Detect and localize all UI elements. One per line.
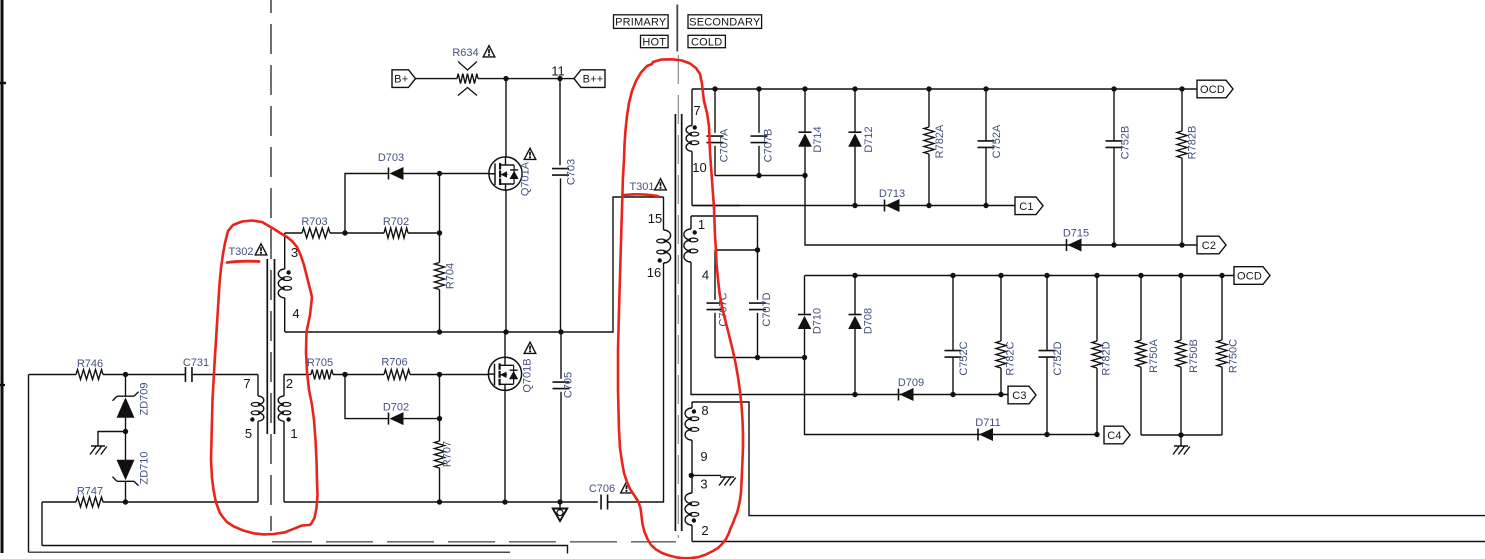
junction rail R782A bbox=[926, 86, 931, 91]
wire D702 left bbox=[345, 375, 389, 419]
svg-text:R782D: R782D bbox=[1101, 341, 1113, 375]
resistor R634 bbox=[457, 74, 478, 84]
svg-text:OCD: OCD bbox=[1200, 84, 1225, 96]
wire D702 right bbox=[404, 418, 440, 420]
junction C703 bottom bbox=[558, 329, 563, 334]
tag C2 bbox=[1197, 236, 1226, 254]
tag OCD top bbox=[1197, 80, 1233, 98]
red underline T301 bbox=[624, 194, 658, 196]
junction lrail R750B bbox=[1178, 273, 1183, 278]
svg-text:R750C: R750C bbox=[1228, 339, 1240, 373]
svg-text:2: 2 bbox=[286, 376, 293, 391]
T301 dot pin16 bbox=[658, 258, 662, 262]
wire pin3 to ground bbox=[691, 474, 721, 476]
junction C752A bottom bbox=[983, 203, 988, 208]
diode D712 bbox=[854, 89, 856, 132]
resistor R702 bbox=[384, 228, 408, 238]
svg-text:C1: C1 bbox=[1019, 201, 1033, 213]
junction lrail R750A bbox=[1138, 273, 1143, 278]
svg-text:COLD: COLD bbox=[691, 36, 722, 48]
T301 winding 8-9 bbox=[691, 402, 693, 408]
svg-text:15: 15 bbox=[648, 211, 662, 226]
PRIMARY label bbox=[614, 15, 669, 29]
svg-text:8: 8 bbox=[701, 403, 708, 418]
T302 winding 2-1 bbox=[283, 375, 285, 397]
wire C731 to pin7 bbox=[192, 374, 258, 376]
diode D703 bbox=[388, 168, 390, 180]
svg-text:R702: R702 bbox=[383, 216, 409, 228]
svg-text:7: 7 bbox=[693, 103, 700, 118]
wire R706 to gate bbox=[410, 374, 488, 376]
svg-text:C707D: C707D bbox=[761, 292, 773, 326]
T302 winding 3-4 bbox=[284, 233, 286, 269]
svg-text:C703: C703 bbox=[566, 159, 578, 185]
svg-text:1: 1 bbox=[290, 426, 297, 441]
svg-text:C752C: C752C bbox=[958, 341, 970, 375]
wire C706 to pin16 bbox=[608, 263, 664, 502]
junction rail C752B bbox=[1111, 86, 1116, 91]
svg-text:C731: C731 bbox=[183, 357, 209, 369]
wire R634 to B++ bbox=[478, 78, 576, 80]
resistor R706 bbox=[384, 370, 410, 380]
wire R704 lower bbox=[439, 233, 441, 332]
svg-text:D708: D708 bbox=[863, 308, 875, 334]
junction lrail C752C bbox=[950, 273, 955, 278]
T301 junction pin3 bbox=[689, 473, 694, 478]
wire Q701A drain bbox=[505, 79, 507, 158]
resistor R782B bbox=[1181, 89, 1183, 131]
junction ZD709 top bbox=[123, 372, 128, 377]
svg-text:4: 4 bbox=[702, 268, 709, 283]
svg-text:B+: B+ bbox=[394, 74, 408, 86]
junction D703-R704 bbox=[437, 171, 442, 176]
wire D710 to C4 row bbox=[805, 358, 1098, 435]
wire pin3 to R703 bbox=[285, 232, 302, 234]
mosfet Q701A bbox=[489, 157, 522, 190]
wire R746 to C731 bbox=[103, 374, 185, 376]
wire R746 left bbox=[29, 375, 77, 553]
capacitor C731 bbox=[185, 367, 192, 382]
junction D708 bottom bbox=[852, 392, 857, 397]
junction rail D712 bbox=[852, 86, 857, 91]
svg-text:C752B: C752B bbox=[1120, 126, 1132, 160]
svg-text:C707A: C707A bbox=[719, 128, 731, 162]
svg-text:R747: R747 bbox=[77, 486, 103, 498]
T301 winding 15-16 bbox=[663, 197, 665, 230]
wire C707CD bottom bbox=[715, 357, 805, 359]
red underline T302 bbox=[227, 261, 259, 262]
junction ZD710 bottom bbox=[123, 499, 128, 504]
wire D703 left bbox=[345, 174, 389, 234]
wire C1 row bbox=[692, 205, 1015, 207]
wire to ground left bbox=[98, 432, 126, 447]
svg-text:R782C: R782C bbox=[1005, 341, 1017, 375]
wire pin1 box bbox=[691, 216, 758, 247]
tag B++ bbox=[574, 70, 605, 88]
junction lrail C752D bbox=[1044, 273, 1049, 278]
wire pin2 bottom rail bbox=[692, 541, 1485, 543]
resistor R704 bbox=[435, 263, 445, 290]
svg-text:3: 3 bbox=[700, 477, 707, 492]
capacitor C752B bbox=[1113, 89, 1115, 141]
resistor R703 bbox=[302, 228, 330, 238]
svg-text:D711: D711 bbox=[975, 417, 1000, 429]
svg-text:C706: C706 bbox=[589, 483, 615, 495]
wire primary bottom rail bbox=[284, 501, 598, 503]
mosfet Q701B bbox=[488, 357, 521, 390]
svg-text:D702: D702 bbox=[383, 402, 409, 414]
svg-text:D709: D709 bbox=[898, 377, 924, 389]
junction D710 bottom bbox=[802, 355, 807, 360]
junction C707D bottom bbox=[755, 355, 760, 360]
diode D702 bbox=[388, 413, 390, 425]
tag B+ bbox=[392, 70, 416, 88]
PRIMARY-SECONDARY divider bbox=[676, 5, 678, 52]
warning Q701A bbox=[524, 148, 536, 159]
T301 winding 7-10 bbox=[691, 89, 693, 126]
wire pin4 rail bbox=[285, 197, 664, 332]
diode D711 bbox=[977, 429, 979, 441]
red circle T302 bbox=[211, 221, 318, 535]
diode D710 bbox=[804, 276, 806, 315]
wire OCD lower rail bbox=[805, 275, 1235, 277]
junction R705-R706 bbox=[342, 372, 347, 377]
zener ZD709 bbox=[125, 375, 127, 397]
T301 winding 1-4 bbox=[690, 216, 692, 229]
wire R702 right bbox=[408, 232, 440, 234]
junction R750B ground bbox=[1178, 432, 1183, 437]
wire C705 lower bbox=[560, 392, 562, 502]
junction D702-R707 bbox=[437, 416, 442, 421]
diode D713 bbox=[884, 200, 886, 212]
junction C707B bottom bbox=[756, 173, 761, 178]
svg-text:ZD709: ZD709 bbox=[139, 382, 151, 415]
capacitor C707D bbox=[757, 246, 759, 300]
junction C752B bottom bbox=[1111, 242, 1116, 247]
junction R782C bottom bbox=[998, 392, 1003, 397]
capacitor C706 bbox=[601, 495, 608, 510]
svg-text:R707: R707 bbox=[442, 441, 454, 467]
svg-text:2: 2 bbox=[701, 523, 708, 538]
junction lrail R782D bbox=[1094, 273, 1099, 278]
svg-text:C4: C4 bbox=[1107, 430, 1121, 442]
T302 dot pin5 bbox=[250, 417, 254, 421]
junction R782B bottom bbox=[1179, 242, 1184, 247]
svg-text:R703: R703 bbox=[301, 216, 327, 228]
wire R750B ground stem bbox=[1180, 435, 1182, 446]
wire Q701B source bbox=[504, 390, 506, 503]
wire Q701B drain bbox=[504, 332, 506, 358]
svg-text:R746: R746 bbox=[77, 358, 103, 370]
T301 winding 3-2 bbox=[691, 475, 693, 493]
junction rail R782B bbox=[1179, 86, 1184, 91]
svg-text:T302: T302 bbox=[228, 246, 253, 258]
ground R750B bbox=[1173, 446, 1190, 455]
HOT label bbox=[641, 35, 669, 47]
capacitor C752D bbox=[1046, 276, 1048, 351]
junction C752D bottom bbox=[1044, 432, 1049, 437]
svg-text:PRIMARY: PRIMARY bbox=[615, 17, 667, 29]
wire D703 right bbox=[404, 173, 490, 175]
border tick bbox=[0, 82, 6, 84]
wire pin8 box bbox=[692, 402, 1485, 516]
capacitor C752C bbox=[952, 276, 954, 351]
resistor R782D bbox=[1096, 276, 1098, 342]
wire C703 upper bbox=[559, 79, 561, 166]
wire Q701A source bbox=[505, 190, 507, 333]
svg-text:D715: D715 bbox=[1063, 228, 1089, 240]
wire R703-R702 bbox=[330, 232, 384, 234]
frame line bottom B bbox=[29, 551, 511, 553]
warning Q701B bbox=[524, 342, 536, 353]
svg-text:R705: R705 bbox=[307, 357, 333, 369]
junction D712 bottom bbox=[852, 203, 857, 208]
svg-text:D710: D710 bbox=[812, 308, 824, 334]
svg-text:16: 16 bbox=[647, 265, 661, 280]
svg-text:R782B: R782B bbox=[1187, 126, 1199, 160]
resistor R746 bbox=[76, 370, 103, 380]
junction rail C707B bbox=[756, 86, 761, 91]
T301 dot pin1 bbox=[693, 230, 697, 234]
diode D714 bbox=[804, 89, 806, 132]
T302 dot pin1 bbox=[286, 417, 290, 421]
T301 dot pin2 bbox=[692, 518, 696, 522]
wire C707C top bbox=[715, 249, 758, 251]
svg-text:R634: R634 bbox=[452, 47, 478, 59]
svg-text:C752D: C752D bbox=[1052, 341, 1064, 375]
border tick 2 bbox=[0, 384, 5, 386]
warning T302 bbox=[255, 244, 267, 255]
T301 dot pin7 bbox=[693, 125, 697, 129]
svg-text:7: 7 bbox=[243, 376, 250, 391]
sheet left border bbox=[1, 0, 4, 553]
wire R747 to pin5 bbox=[103, 501, 258, 503]
svg-text:C707B: C707B bbox=[763, 129, 775, 163]
wire R704 upper link bbox=[439, 174, 441, 234]
junction C703 top bbox=[557, 76, 562, 81]
svg-text:R750A: R750A bbox=[1148, 339, 1160, 373]
resistor R782A bbox=[928, 89, 930, 127]
wire R705-R706 bbox=[333, 374, 384, 376]
svg-text:C3: C3 bbox=[1012, 390, 1026, 402]
tag C1 bbox=[1015, 197, 1043, 215]
tag C4 bbox=[1104, 426, 1130, 444]
diode D715 bbox=[1066, 239, 1068, 251]
junction Q701B source bbox=[502, 499, 507, 504]
wire C707AB bottom bbox=[715, 175, 805, 177]
ground triangle bbox=[559, 502, 561, 509]
ground left bbox=[90, 446, 107, 455]
ground pin3 bbox=[719, 477, 736, 486]
COLD label bbox=[688, 35, 725, 47]
svg-text:R704: R704 bbox=[445, 263, 457, 289]
svg-text:OCD: OCD bbox=[1237, 271, 1262, 283]
svg-text:R782A: R782A bbox=[934, 124, 946, 158]
junction R707 bottom bbox=[437, 499, 442, 504]
svg-text:D712: D712 bbox=[863, 126, 875, 152]
wire R707 ends bbox=[439, 419, 441, 502]
junction D714 bottom bbox=[802, 173, 807, 178]
resistor R750A bbox=[1140, 276, 1142, 341]
svg-text:D714: D714 bbox=[812, 126, 824, 152]
capacitor C707C bbox=[714, 250, 716, 300]
resistor R750B bbox=[1180, 276, 1182, 341]
tag OCD lower bbox=[1234, 267, 1270, 285]
T301 dot pin8 bbox=[692, 409, 696, 413]
capacitor C752A bbox=[985, 89, 987, 141]
svg-text:5: 5 bbox=[245, 426, 252, 441]
transformer T301 core bbox=[675, 114, 681, 531]
capacitor C707B bbox=[758, 89, 760, 133]
wire pin2 to R705 bbox=[284, 374, 311, 376]
svg-text:C705: C705 bbox=[563, 372, 575, 398]
warning R634 bbox=[483, 46, 495, 57]
warning T301 bbox=[655, 179, 667, 190]
wire B+ rail bbox=[416, 78, 458, 80]
wire pin4 out bbox=[691, 393, 855, 395]
junction R704 bottom bbox=[437, 329, 442, 334]
junction Q701A drain top bbox=[503, 76, 508, 81]
junction ZD709-ZD710 bbox=[123, 429, 128, 434]
junction R782A bottom bbox=[926, 203, 931, 208]
wire R747 left bbox=[42, 502, 76, 546]
junction rail C707A bbox=[712, 86, 717, 91]
wire C705 upper bbox=[560, 332, 562, 379]
resistor R747 bbox=[76, 497, 103, 507]
T302 dot pin3 bbox=[286, 270, 290, 274]
junction rail C752A bbox=[983, 86, 988, 91]
transformer T302 core bbox=[267, 259, 274, 434]
frame line bottom A bbox=[42, 546, 568, 554]
svg-text:T301: T301 bbox=[629, 181, 654, 193]
svg-text:Q701B: Q701B bbox=[522, 358, 534, 392]
wire R750 bottom bbox=[1141, 434, 1222, 436]
wire C703 lower bbox=[560, 178, 562, 332]
junction lrail R750C bbox=[1219, 273, 1224, 278]
wire C3 row bbox=[855, 394, 1008, 396]
svg-text:9: 9 bbox=[700, 449, 707, 464]
zener ZD710 bbox=[125, 432, 127, 461]
resistor R707 bbox=[435, 441, 445, 468]
resistor R705 bbox=[311, 370, 333, 380]
svg-text:10: 10 bbox=[692, 160, 706, 175]
resistor R782C bbox=[1000, 276, 1002, 342]
capacitor C705 bbox=[553, 382, 570, 389]
T302 winding 7-5 bbox=[257, 375, 259, 397]
svg-text:D703: D703 bbox=[378, 152, 404, 164]
svg-text:B++: B++ bbox=[583, 74, 604, 86]
junction lrail D708 bbox=[852, 273, 857, 278]
svg-text:ZD710: ZD710 bbox=[139, 451, 151, 484]
warning C706 bbox=[621, 482, 633, 493]
svg-text:C752A: C752A bbox=[991, 124, 1003, 158]
wire OCD top rail bbox=[692, 88, 1197, 90]
junction gate Q701B bbox=[437, 372, 442, 377]
junction R782D bottom bbox=[1094, 432, 1099, 437]
svg-text:C2: C2 bbox=[1202, 240, 1216, 252]
HOT-COLD dashed boundary left bbox=[270, 0, 272, 531]
svg-text:11: 11 bbox=[551, 64, 565, 79]
junction Q701A source bbox=[503, 329, 508, 334]
svg-text:R706: R706 bbox=[381, 357, 407, 369]
HOT-COLD dashed boundary bottom bbox=[272, 541, 676, 543]
svg-text:Q701A: Q701A bbox=[520, 161, 532, 196]
tag C3 bbox=[1008, 386, 1036, 404]
svg-text:4: 4 bbox=[292, 306, 299, 321]
SECONDARY label bbox=[688, 15, 762, 29]
red circle T301 bbox=[618, 59, 743, 558]
wire D714 to C2 row bbox=[805, 176, 1197, 246]
junction rail D714 bbox=[802, 86, 807, 91]
capacitor C707A bbox=[714, 89, 716, 133]
HOT-COLD dashed boundary right bbox=[677, 55, 679, 538]
junction C752C bottom bbox=[950, 392, 955, 397]
svg-text:1: 1 bbox=[698, 217, 705, 232]
svg-text:D713: D713 bbox=[879, 188, 905, 200]
svg-text:R750B: R750B bbox=[1188, 339, 1200, 373]
diode D708 bbox=[854, 276, 856, 315]
resistor R750C bbox=[1221, 276, 1223, 341]
diode D709 bbox=[898, 389, 900, 401]
junction C705 bottom bbox=[557, 499, 562, 504]
junction R703-R702 bbox=[342, 230, 347, 235]
junction lrail R782C bbox=[998, 273, 1003, 278]
capacitor C703 bbox=[552, 169, 569, 176]
junction C707D top bbox=[755, 247, 760, 252]
wire gate link bbox=[439, 375, 441, 419]
svg-text:SECONDARY: SECONDARY bbox=[689, 17, 761, 29]
junction R702-R704 bbox=[437, 230, 442, 235]
svg-text:HOT: HOT bbox=[642, 36, 666, 48]
wire pin10 out bbox=[692, 205, 740, 207]
